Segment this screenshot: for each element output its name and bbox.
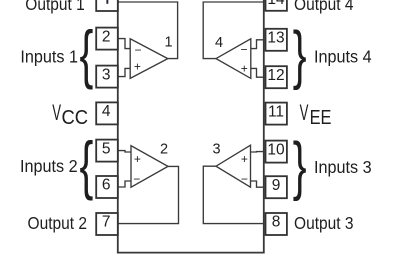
svg-text:7: 7	[102, 214, 111, 231]
svg-text:5: 5	[102, 140, 111, 157]
svg-text:+: +	[134, 152, 141, 166]
svg-text:V: V	[300, 101, 309, 125]
svg-text:11: 11	[268, 103, 284, 120]
svg-text:Inputs 1: Inputs 1	[20, 47, 78, 67]
svg-text:EE: EE	[310, 105, 332, 128]
svg-text:+: +	[241, 152, 248, 166]
svg-text:Output 4: Output 4	[294, 0, 353, 14]
svg-text:Inputs 3: Inputs 3	[314, 157, 372, 177]
svg-text:2: 2	[160, 142, 168, 158]
svg-text:+: +	[134, 60, 141, 74]
svg-text:9: 9	[272, 177, 281, 194]
svg-text:}: }	[293, 129, 307, 202]
svg-text:−: −	[241, 172, 248, 186]
svg-text:12: 12	[267, 67, 284, 84]
svg-text:}: }	[293, 18, 307, 91]
svg-text:−: −	[240, 43, 247, 57]
svg-text:−: −	[133, 172, 140, 186]
svg-text:{: {	[80, 17, 94, 90]
svg-text:2: 2	[102, 28, 111, 45]
svg-text:8: 8	[272, 214, 281, 231]
svg-text:14: 14	[267, 0, 285, 8]
svg-text:4: 4	[102, 103, 111, 120]
svg-text:6: 6	[102, 177, 111, 194]
svg-text:+: +	[241, 61, 248, 75]
svg-text:Inputs 2: Inputs 2	[20, 156, 78, 176]
svg-text:V: V	[52, 101, 61, 125]
svg-text:Output 1: Output 1	[25, 0, 84, 14]
svg-text:Output 2: Output 2	[28, 213, 87, 233]
svg-text:3: 3	[212, 142, 220, 158]
svg-text:Inputs 4: Inputs 4	[314, 47, 372, 67]
svg-text:Output 3: Output 3	[294, 213, 353, 233]
svg-text:10: 10	[267, 141, 285, 158]
svg-text:{: {	[80, 128, 94, 201]
svg-text:13: 13	[267, 30, 284, 47]
svg-text:−: −	[134, 43, 141, 57]
svg-text:CC: CC	[62, 107, 89, 129]
svg-text:3: 3	[102, 66, 111, 83]
svg-text:1: 1	[164, 34, 172, 50]
svg-text:4: 4	[215, 35, 223, 51]
